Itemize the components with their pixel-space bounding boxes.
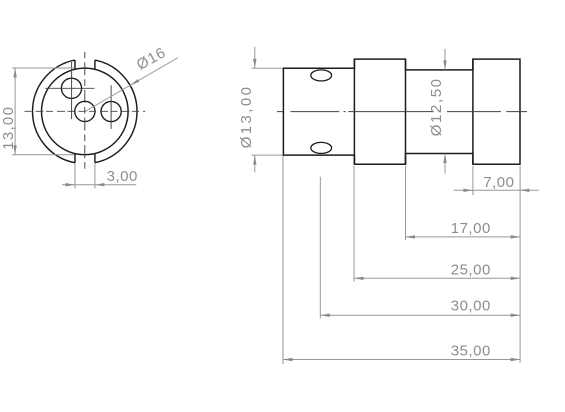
hole center bbox=[75, 101, 95, 121]
part outline bbox=[283, 59, 520, 164]
slot wall bottom-left bbox=[74, 154, 76, 163]
dim 13,00 extension top bbox=[12, 67, 75, 69]
dim 13,00 extension bottom bbox=[12, 154, 75, 156]
hole right vertical centerline bbox=[110, 85, 112, 129]
horizontal centerline bbox=[25, 110, 146, 112]
arrow 13,00 down bbox=[13, 145, 16, 155]
ext 25,00 left bbox=[353, 166, 355, 282]
svg-text:Ø12,50: Ø12,50 bbox=[428, 77, 445, 136]
svg-text:3,00: 3,00 bbox=[107, 168, 138, 185]
hole upper-left bbox=[61, 78, 81, 98]
slot wall top-left bbox=[74, 60, 76, 69]
dim 7,00 ext left bbox=[472, 166, 474, 195]
dim 3,00 line bbox=[62, 184, 136, 186]
dim Ø13,00 line top bbox=[254, 47, 256, 69]
svg-text:Ø13,00: Ø13,00 bbox=[238, 85, 255, 149]
centerlines front bbox=[25, 52, 146, 171]
arrow 3,00 left-pointing bbox=[95, 183, 105, 186]
outer circle left arc bbox=[33, 60, 75, 163]
dim Ø12,50 line bottom bbox=[444, 154, 446, 174]
arrow 17,00 left tip bbox=[406, 235, 416, 238]
inner circle bbox=[42, 68, 129, 155]
dim 17,00 line bbox=[406, 236, 521, 238]
hole UL horizontal centerline bbox=[45, 87, 94, 89]
svg-text:17,00: 17,00 bbox=[451, 220, 491, 237]
arrow 17,00 right tip bbox=[511, 235, 520, 238]
slot wall top-right bbox=[94, 60, 96, 69]
ellipse hole top bbox=[311, 70, 332, 81]
arrow 25,00 left tip bbox=[354, 277, 364, 280]
dim 30,00 line bbox=[320, 314, 520, 316]
svg-text:7,00: 7,00 bbox=[483, 174, 514, 191]
dim 3,00 extension right bbox=[94, 164, 96, 189]
arrow Ø12,50 up bbox=[443, 154, 446, 164]
dim Ø12,50 line top bbox=[444, 49, 446, 70]
dim 25,00 line bbox=[354, 277, 520, 279]
dim 35,00 line bbox=[283, 359, 520, 361]
svg-text:30,00: 30,00 bbox=[451, 298, 491, 315]
dim Ø13,00 ext top bbox=[252, 67, 283, 69]
svg-text:13,00: 13,00 bbox=[0, 106, 17, 150]
dim Ø13,00 ext bottom bbox=[252, 154, 283, 156]
outer circle right arc bbox=[95, 60, 137, 163]
arrow Ø13,00 up bbox=[253, 155, 256, 165]
slot wall bottom-right bbox=[94, 154, 96, 163]
arrow 25,00 right tip bbox=[511, 277, 520, 280]
svg-text:35,00: 35,00 bbox=[451, 343, 491, 360]
arrow 3,00 right-pointing bbox=[66, 183, 76, 186]
dim 7,00 line bbox=[454, 189, 539, 191]
step edge S2/S3 bbox=[405, 59, 407, 164]
leader Ø16 bbox=[85, 58, 178, 112]
step edge S3/S4 bbox=[472, 59, 474, 164]
arrow 35,00 right tip bbox=[511, 358, 520, 361]
arrow 35,00 left tip bbox=[283, 358, 293, 361]
arrow Ø12,50 down bbox=[443, 60, 446, 70]
step edge S1/S2 bbox=[353, 59, 355, 164]
arrow Ø13,00 down bbox=[253, 59, 256, 69]
svg-text:Ø16: Ø16 bbox=[134, 44, 169, 74]
dim 13,00 line bbox=[14, 68, 16, 155]
ext right common bbox=[519, 166, 521, 363]
dim Ø13,00 line bottom bbox=[254, 155, 256, 172]
ext 17,00 left bbox=[405, 166, 407, 240]
arrow 7,00 right-pointing bbox=[463, 189, 473, 192]
ellipse hole bottom bbox=[311, 142, 332, 153]
side centerline bbox=[277, 111, 527, 113]
svg-text:25,00: 25,00 bbox=[451, 262, 491, 279]
ext 35,00 left bbox=[282, 156, 284, 364]
hole right bbox=[101, 101, 121, 121]
arrow 30,00 left tip bbox=[320, 314, 330, 317]
dim 3,00 extension left bbox=[74, 164, 76, 189]
hole UL vertical centerline bbox=[71, 62, 73, 119]
vertical centerline bbox=[84, 52, 86, 171]
arrow 30,00 right tip bbox=[511, 314, 520, 317]
arrow Ø16 leader bbox=[130, 79, 139, 85]
ext 30,00 left bbox=[319, 177, 321, 319]
arrow 7,00 left-pointing bbox=[520, 189, 530, 192]
arrow 13,00 up bbox=[13, 68, 16, 78]
